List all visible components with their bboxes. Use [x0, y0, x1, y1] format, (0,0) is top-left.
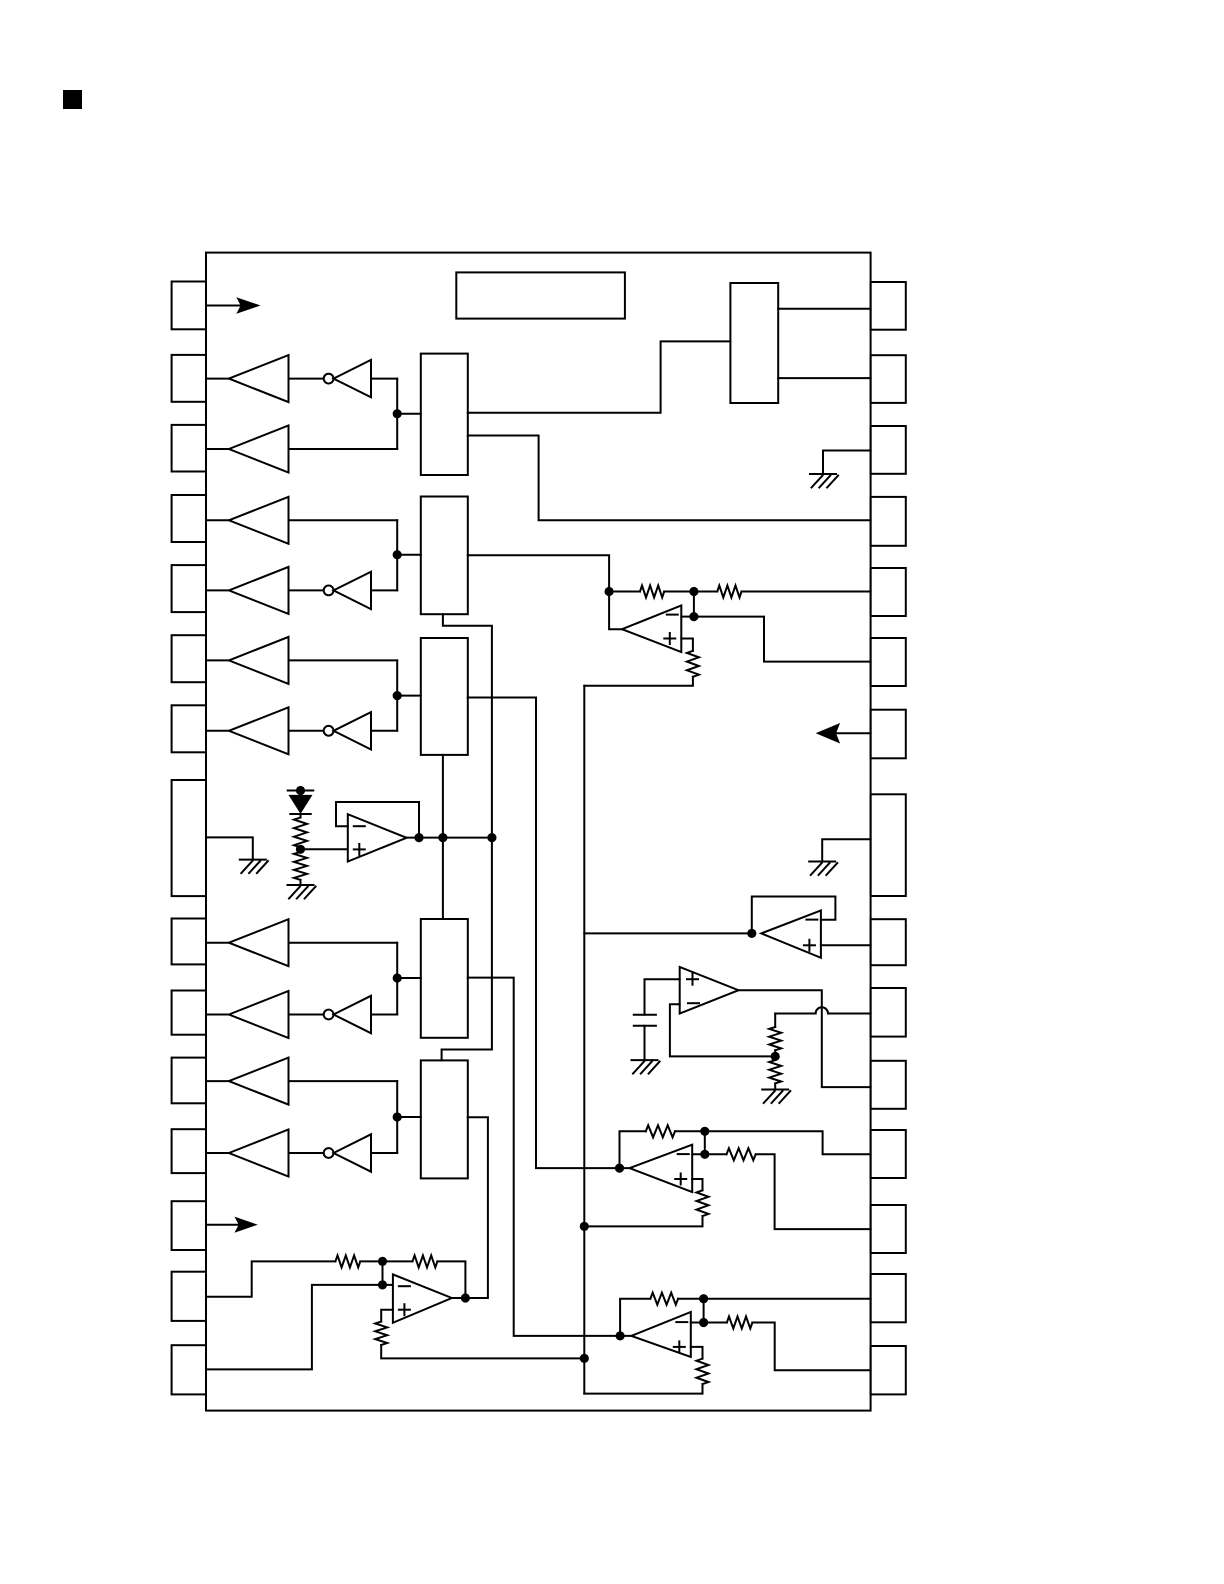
pin 8 (left)	[172, 780, 206, 896]
wire	[206, 942, 229, 944]
wire	[693, 592, 695, 617]
pin 30 (right)	[871, 282, 906, 330]
block: top register	[456, 272, 625, 318]
wire	[206, 1152, 229, 1154]
wire: U3 + to reference bus V2	[584, 677, 693, 686]
input buffer A4	[229, 497, 289, 544]
wire: block C to block D	[442, 755, 444, 919]
pin 14 (left)	[172, 1272, 206, 1321]
junction	[438, 833, 447, 842]
pin 6 (left)	[172, 635, 206, 682]
block C	[421, 638, 468, 755]
input buffer A7	[229, 707, 289, 754]
pin 23 (right)	[871, 794, 906, 896]
junction	[378, 1280, 387, 1289]
wire	[301, 848, 348, 850]
pin 18 (right)	[871, 1205, 906, 1253]
junction	[699, 1294, 708, 1303]
wire	[206, 448, 229, 450]
inverter A2i	[324, 374, 334, 384]
resistor R9	[692, 1153, 726, 1155]
resistor R10	[692, 1179, 702, 1190]
pin 26 (right)	[871, 568, 906, 616]
wire	[396, 1081, 398, 1153]
junction	[747, 929, 756, 938]
wire	[371, 730, 397, 732]
wire: to pin 19	[705, 1131, 871, 1154]
wire: to pin 18	[756, 1154, 871, 1229]
wire	[289, 942, 398, 944]
junction	[699, 1318, 708, 1327]
pin 15 (left)	[172, 1345, 206, 1394]
pin 28 (right)	[871, 426, 906, 474]
junction	[393, 973, 402, 982]
resistor R2	[300, 849, 302, 852]
wire	[289, 1152, 324, 1154]
wire: U7 + return to bus	[584, 1384, 702, 1394]
op-amp U5 (oscillator)	[680, 967, 739, 1014]
junction	[378, 1257, 387, 1266]
wire	[300, 791, 302, 796]
wire	[289, 589, 324, 591]
wire: to pin 21 with hop	[775, 1013, 815, 1015]
junction	[689, 612, 698, 621]
op-amp U6	[630, 1145, 693, 1192]
wire	[206, 1014, 229, 1016]
ground at pin 28	[823, 451, 871, 475]
wire: block D output to op-amp U6	[468, 978, 632, 1336]
wire: to pin 26	[742, 591, 871, 593]
wire: U5 output to pin 20	[739, 990, 871, 1087]
input buffer A2	[229, 355, 289, 402]
pin 27 (right)	[871, 497, 906, 546]
pin 13 input arrow	[206, 1224, 243, 1226]
input buffer A6	[229, 637, 289, 684]
resistor R1	[294, 818, 307, 848]
IC outline U1	[206, 253, 871, 1411]
input buffer A11	[229, 1058, 289, 1105]
wire: U8 + to bus	[381, 1345, 584, 1358]
pin 1 (left)	[172, 282, 206, 330]
supply bar	[288, 790, 314, 792]
wire: U2 feedback	[336, 802, 419, 838]
input buffer A10	[229, 991, 289, 1038]
pin 20 (right)	[871, 1061, 906, 1109]
op-amp U7	[631, 1312, 691, 1357]
wire	[645, 979, 680, 1015]
ground	[288, 884, 314, 886]
wire	[382, 1261, 384, 1285]
inverter A10i	[324, 1010, 334, 1020]
junction	[461, 1293, 470, 1302]
pin 25 (right)	[871, 638, 906, 686]
pin 1 input arrow	[206, 305, 246, 307]
wire: control logic to pin 29	[778, 377, 870, 379]
wire	[396, 520, 398, 590]
pin 9 (left)	[172, 919, 206, 965]
resistor R12	[691, 1322, 727, 1324]
pin 11 (left)	[172, 1058, 206, 1104]
block D	[421, 919, 468, 1038]
junction	[580, 1222, 589, 1231]
resistor R16	[381, 1310, 393, 1322]
input buffer A5	[229, 567, 289, 614]
resistor R4	[694, 591, 717, 593]
inverter A12i	[324, 1148, 334, 1158]
wire	[397, 554, 421, 556]
wire	[397, 977, 421, 979]
wire	[206, 659, 229, 661]
pin 24 (right)	[871, 710, 906, 759]
junction	[393, 691, 402, 700]
inverter A7i	[324, 726, 334, 736]
input buffer A3	[229, 426, 289, 473]
resistor R15 (U8 feedback)	[413, 1255, 438, 1267]
junction	[580, 1354, 589, 1363]
ground	[762, 1089, 788, 1091]
wire	[206, 519, 229, 521]
wire	[289, 730, 324, 732]
resistor R11 (U7 feedback)	[620, 1299, 650, 1336]
wire: U3 inverting input to pin 25	[681, 616, 694, 618]
pin 21 (right)	[871, 988, 906, 1037]
wire	[703, 1299, 705, 1323]
junction	[615, 1164, 624, 1173]
resistor R5	[681, 639, 693, 651]
wire	[300, 814, 302, 818]
diode D1	[290, 796, 310, 812]
pin 13 (left)	[172, 1201, 206, 1250]
pin 19 (right)	[871, 1130, 906, 1178]
junction	[393, 550, 402, 559]
inverter A5i	[324, 586, 334, 596]
junction	[616, 1331, 625, 1340]
wire	[371, 1152, 397, 1154]
wire: U4 feedback	[752, 897, 836, 934]
junction	[414, 833, 423, 842]
wire	[289, 448, 398, 450]
op-amp U4	[761, 910, 821, 957]
input buffer A12	[229, 1130, 289, 1177]
pin 2 (left)	[172, 355, 206, 402]
pin 22 (right)	[871, 919, 906, 965]
junction	[605, 587, 614, 596]
wire: block A to control logic	[468, 341, 731, 412]
wire: pin 15 to U8 inverting input	[206, 1285, 393, 1370]
pin 3 (left)	[172, 425, 206, 472]
junction	[700, 1150, 709, 1159]
op-amp U3	[622, 606, 681, 653]
wire: pin 14 input	[206, 1261, 335, 1296]
wire	[206, 730, 229, 732]
capacitor C1	[634, 1014, 656, 1016]
junction	[771, 1052, 780, 1061]
wire	[371, 1014, 397, 1016]
block: control logic	[730, 283, 778, 403]
wire	[397, 695, 421, 697]
ground at pin 8	[206, 837, 253, 859]
pin 29 (right)	[871, 355, 906, 403]
section bullet	[64, 91, 81, 108]
op-amp U8	[393, 1274, 452, 1322]
wire: block C output to op-amp U5	[468, 698, 630, 1169]
ground at pin 23	[822, 839, 870, 861]
pin 10 (left)	[172, 991, 206, 1035]
resistor R6	[774, 1014, 776, 1028]
wire: U5 inverting input	[670, 1004, 775, 1056]
wire: to pin 17	[678, 1298, 871, 1300]
wire	[704, 1131, 706, 1154]
wire	[644, 1026, 646, 1060]
wire	[397, 1116, 421, 1118]
pin 7 (left)	[172, 705, 206, 752]
resistor R14	[335, 1255, 360, 1267]
block A	[421, 354, 468, 475]
wire	[289, 1014, 324, 1016]
wire: bus to op-amp U4	[584, 932, 752, 934]
resistor R8 (U6 feedback)	[620, 1131, 646, 1168]
wire	[397, 413, 421, 415]
input buffer A9	[229, 919, 289, 966]
wire: control logic to pin 30	[778, 308, 870, 310]
pin 16 (right)	[871, 1346, 906, 1394]
junction	[689, 587, 698, 596]
ground	[632, 1059, 658, 1061]
junction	[393, 409, 402, 418]
wire	[396, 660, 398, 730]
junction	[296, 845, 305, 854]
pin 5 (left)	[172, 565, 206, 612]
wire: U6 + to bus	[584, 1216, 702, 1226]
wire	[371, 378, 397, 380]
wire	[206, 589, 229, 591]
resistor R3	[609, 591, 640, 593]
wire: block E output to op-amp U7	[452, 1117, 488, 1298]
pin 24 input arrow	[836, 732, 871, 734]
wire	[289, 378, 324, 380]
junction	[487, 833, 496, 842]
op-amp U2 (reference buffer)	[348, 814, 407, 861]
wire: reference bus from block B	[442, 614, 492, 1060]
wire	[371, 589, 397, 591]
wire	[206, 378, 229, 380]
wire: U4 + to pin 22	[821, 944, 871, 946]
junction	[700, 1127, 709, 1136]
wire: to pin 16	[752, 1323, 870, 1371]
pin 12 (left)	[172, 1129, 206, 1173]
resistor R13	[691, 1347, 703, 1359]
wire: reference output	[407, 837, 492, 839]
resistor R7	[774, 1056, 776, 1060]
wire	[396, 379, 398, 449]
block B	[421, 497, 468, 615]
pin 17 (right)	[871, 1274, 906, 1322]
wire: block A to pin 27	[468, 436, 871, 521]
wire	[206, 1080, 229, 1082]
junction	[393, 1112, 402, 1121]
junction	[296, 786, 305, 795]
wire	[289, 659, 398, 661]
pin 4 (left)	[172, 495, 206, 542]
wire: reference bus V2	[583, 686, 585, 1394]
block E	[421, 1060, 468, 1178]
wire	[396, 943, 398, 1015]
wire	[289, 519, 398, 521]
wire: block B output	[468, 555, 622, 629]
wire	[289, 1080, 398, 1082]
